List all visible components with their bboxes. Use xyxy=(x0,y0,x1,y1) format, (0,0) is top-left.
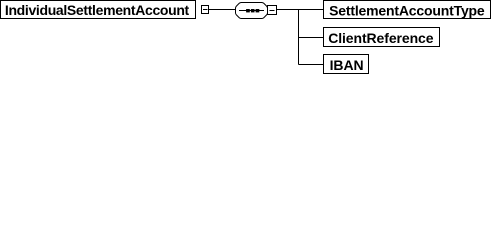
wire from expand button 1 to sequence xyxy=(209,9,236,11)
element box IndividualSettlementAccount xyxy=(1,1,196,19)
sequence compositor xyxy=(236,3,268,19)
expand button 1 (minus) xyxy=(202,6,209,14)
wire from expand button 2 to child 1 xyxy=(277,9,324,11)
svg-text:IndividualSettlementAccount: IndividualSettlementAccount xyxy=(5,2,190,18)
element box ClientReference xyxy=(324,28,440,47)
element box IBAN xyxy=(324,55,369,74)
wire trunk vertical xyxy=(298,10,300,65)
wire branch to child 3 xyxy=(299,64,324,66)
expand button 2 (minus) xyxy=(268,6,277,15)
wire branch to child 2 xyxy=(299,37,324,39)
svg-text:SettlementAccountType: SettlementAccountType xyxy=(329,3,485,19)
element box SettlementAccountType xyxy=(324,1,491,19)
svg-text:ClientReference: ClientReference xyxy=(328,30,434,46)
svg-text:IBAN: IBAN xyxy=(330,57,364,73)
